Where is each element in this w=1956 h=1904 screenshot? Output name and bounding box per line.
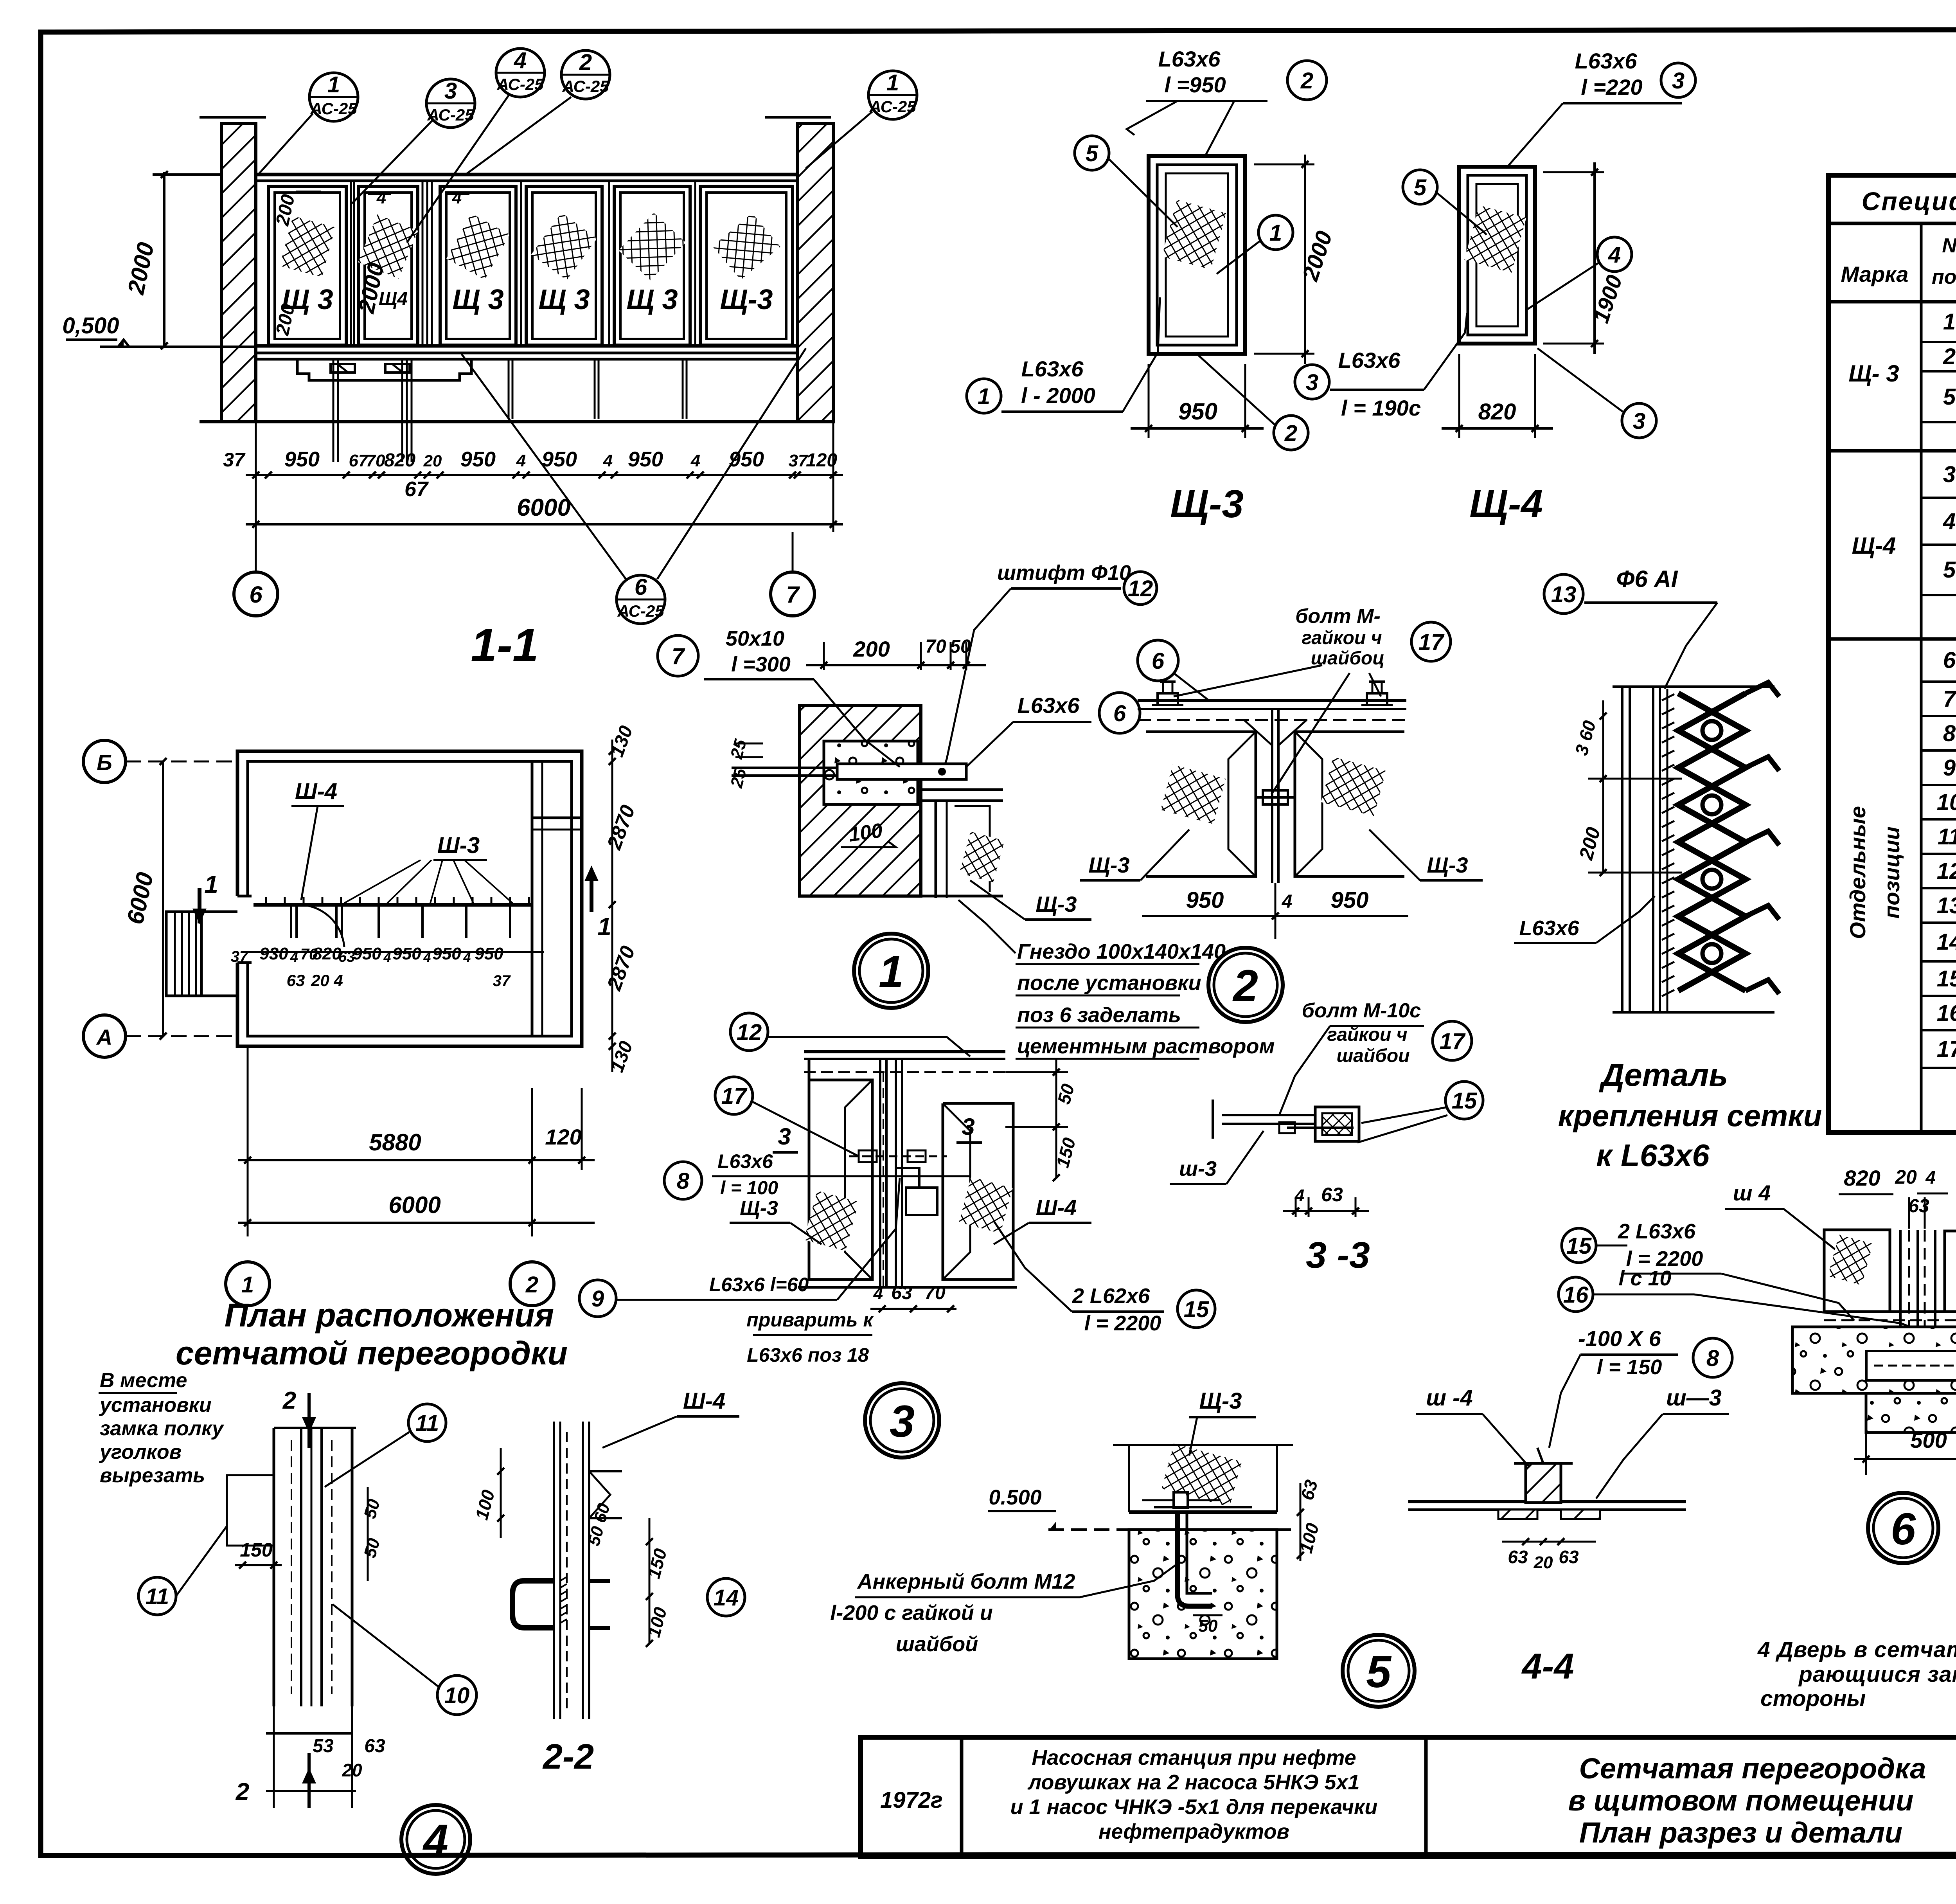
detail 2 : top angle rail double lines <box>1138 699 1406 702</box>
callout 1 bottom-left: L63x6 l-2000 <box>967 379 1001 413</box>
door bottom plate with clamps <box>297 359 471 380</box>
svg-text:50x10: 50x10 <box>726 627 784 650</box>
elevation : right brick wall pier <box>797 124 833 422</box>
plan: section cut marks 1-1 <box>198 888 201 923</box>
svg-text:1: 1 <box>204 870 218 898</box>
svg-text:установки: установки <box>99 1394 212 1416</box>
svg-text:2: 2 <box>1232 961 1258 1011</box>
foundation detail : bottom angles <box>1824 1310 1956 1313</box>
svg-text:950: 950 <box>432 944 461 963</box>
svg-text:АС-25: АС-25 <box>427 106 474 124</box>
svg-text:2: 2 <box>236 1778 249 1805</box>
detail 3 : right door panel <box>943 1103 1013 1280</box>
svg-text:4: 4 <box>463 950 471 965</box>
detail 1 : callout 7 50x10 l=300 <box>658 635 698 676</box>
svg-text:L63x6: L63x6 <box>1158 47 1221 71</box>
suspended vertical rods below chord <box>333 359 334 462</box>
svg-text:5880: 5880 <box>369 1129 421 1155</box>
svg-text:2: 2 <box>282 1387 296 1414</box>
panel Щ-3 #6 <box>700 186 793 345</box>
svg-text:Ш-4: Ш-4 <box>683 1388 725 1414</box>
section 4-4 : hatched post <box>1526 1463 1561 1503</box>
svg-text:Щ-4: Щ-4 <box>1469 482 1543 526</box>
detail 1 : embedded strip 50x10 <box>837 764 966 779</box>
svg-text:820: 820 <box>384 450 415 471</box>
svg-text:Щ4: Щ4 <box>379 289 408 310</box>
foundation detail : ground slab <box>1792 1327 1956 1393</box>
svg-text:цементным раствором: цементным раствором <box>1017 1035 1275 1058</box>
svg-text:9: 9 <box>591 1286 604 1312</box>
svg-text:200: 200 <box>853 637 890 661</box>
panel Щ 3 #5 <box>614 186 690 345</box>
svg-text:500: 500 <box>1910 1428 1947 1452</box>
plan: partition post ticks <box>290 905 292 938</box>
svg-text:7: 7 <box>672 644 685 669</box>
foundation detail : right panel <box>1945 1231 1956 1312</box>
callout 4 right <box>1597 237 1632 272</box>
axis circle 6 (elevation) <box>234 572 278 616</box>
svg-text:2: 2 <box>1284 421 1297 446</box>
svg-text:150: 150 <box>240 1539 273 1561</box>
detail 3 : callout 12 <box>730 1013 768 1051</box>
callout 5 (mesh, Щ-4) <box>1403 170 1437 204</box>
svg-text:Ш-4: Ш-4 <box>295 779 337 804</box>
svg-text:17: 17 <box>1440 1029 1466 1054</box>
svg-text:15: 15 <box>1184 1297 1209 1322</box>
detail 3 : latch hardware <box>906 1188 937 1215</box>
svg-text:Щ-3: Щ-3 <box>720 284 773 315</box>
svg-text:3: 3 <box>962 1114 974 1140</box>
svg-text:17: 17 <box>721 1083 748 1109</box>
svg-text:3: 3 <box>890 1397 915 1447</box>
mesh fixing detail : lacing rod ticks <box>1662 694 1674 700</box>
svg-text:2: 2 <box>579 50 592 75</box>
detail 4 : big circle 4 <box>401 1805 470 1874</box>
svg-text:l - 2000: l - 2000 <box>1021 383 1095 408</box>
svg-text:7: 7 <box>786 581 800 608</box>
svg-text:15: 15 <box>1937 966 1956 992</box>
svg-text:63: 63 <box>1321 1184 1343 1206</box>
detail 3 : callout 17 <box>715 1077 753 1114</box>
callout 1 right <box>1258 215 1293 250</box>
svg-text:63: 63 <box>287 971 305 990</box>
svg-text:2: 2 <box>1943 344 1956 369</box>
detail 1 : big circle 1 <box>854 934 928 1008</box>
svg-text:50: 50 <box>950 636 971 657</box>
elevation : lower stub walls below chord <box>254 359 257 422</box>
detail 5 : dims 63 100 <box>1300 1483 1302 1561</box>
section 4-4 : dims 63 20 63 <box>1502 1541 1596 1543</box>
svg-text:15: 15 <box>1566 1233 1592 1259</box>
svg-text:L63x6: L63x6 <box>1519 916 1579 940</box>
svg-text:37: 37 <box>223 449 246 471</box>
svg-text:Марка: Марка <box>1841 262 1909 286</box>
svg-text:0.500: 0.500 <box>989 1486 1041 1509</box>
svg-text:63: 63 <box>1908 1196 1929 1217</box>
svg-text:2 L63x6: 2 L63x6 <box>1618 1220 1696 1243</box>
detail 4 : section mark 2 (top) <box>307 1393 311 1448</box>
svg-text:Ф6 АI: Ф6 АI <box>1616 566 1678 592</box>
svg-text:4: 4 <box>1294 1186 1304 1205</box>
svg-text:ш-3: ш-3 <box>1179 1157 1217 1181</box>
svg-text:l =300: l =300 <box>731 653 791 676</box>
detail 4 : dims 50 50 <box>367 1487 369 1581</box>
detail 2 : center bolt <box>1263 790 1288 804</box>
svg-text:болт М-: болт М- <box>1295 605 1381 628</box>
plan: bottom dims 5880 120 6000 <box>247 1046 249 1236</box>
elevation : bottom chord double line <box>256 344 797 348</box>
svg-text:6000: 6000 <box>388 1192 440 1218</box>
foundation detail : left panel <box>1824 1230 1890 1312</box>
detail 5 : dim 50 <box>1193 1614 1222 1616</box>
svg-text:820: 820 <box>1844 1166 1880 1190</box>
svg-text:4: 4 <box>376 188 386 207</box>
detail 1 : wall pier with hatch <box>800 705 921 896</box>
svg-text:63: 63 <box>364 1736 385 1756</box>
svg-text:17: 17 <box>1418 630 1445 655</box>
callout 6/AC-25 bottom <box>617 574 665 624</box>
section 2-2 : post elevation <box>553 1422 555 1719</box>
svg-text:3 -3: 3 -3 <box>1306 1235 1370 1276</box>
svg-text:АС-25: АС-25 <box>617 602 664 620</box>
callout 3 left: L63x6 l=190c <box>1295 365 1329 399</box>
panel Щ 3 #3 <box>440 186 516 345</box>
svg-text:50: 50 <box>1199 1616 1218 1636</box>
foundation detail : bottom dims 500 200 <box>1854 1458 1956 1460</box>
detail 5 : base angle with bolt washer <box>1154 1506 1252 1508</box>
svg-text:37: 37 <box>231 948 249 965</box>
svg-text:Насосная станция при нефте: Насосная станция при нефте <box>1032 1746 1356 1769</box>
plan: bottom dim chain (row of sizes) <box>246 951 544 953</box>
mesh detail : callout 13 Ф6АI <box>1544 574 1583 614</box>
svg-text:950: 950 <box>460 448 496 471</box>
detail 3 : callout 9 note <box>579 1280 616 1317</box>
svg-text:4: 4 <box>873 1284 883 1303</box>
detail panel Щ-4 <box>1459 167 1535 344</box>
section 2-2 : dims 100 50 60 150 100 <box>500 1448 502 1538</box>
detail 3 : callout 8 L63x6 l=100 <box>664 1162 702 1199</box>
svg-text:1-1: 1-1 <box>471 619 538 671</box>
detail 1 : dims 200 70 50 <box>823 642 825 670</box>
svg-text:63: 63 <box>891 1283 912 1303</box>
svg-text:950: 950 <box>628 448 663 471</box>
plan: left dim 6000 <box>162 761 164 1036</box>
svg-text:6000: 6000 <box>517 494 571 521</box>
panel Щ 3 #1 <box>268 186 346 345</box>
svg-text:и 1 насос ЧНКЭ -5х1 для пере: и 1 насос ЧНКЭ -5х1 для перекачки <box>1010 1795 1378 1819</box>
svg-text:5: 5 <box>1414 175 1427 200</box>
svg-text:5: 5 <box>1086 141 1098 166</box>
detail 5 : concrete block <box>1129 1530 1277 1659</box>
detail panel Щ-3 <box>1149 156 1245 354</box>
svg-text:3: 3 <box>778 1123 791 1150</box>
svg-text:ш -4: ш -4 <box>1426 1385 1472 1411</box>
detail 2 : big circle 2 <box>1208 948 1283 1022</box>
bottom dimension chain of elevation <box>246 474 843 476</box>
svg-text:План расположения: План расположения <box>225 1297 554 1334</box>
svg-text:Щ- 3: Щ- 3 <box>1848 360 1899 387</box>
axis circle 7 (elevation) <box>771 572 814 616</box>
svg-text:Щ-3: Щ-3 <box>1036 892 1077 916</box>
plan: mesh partition line <box>253 903 532 907</box>
plan: stairs outside left <box>166 912 201 996</box>
svg-text:930: 930 <box>259 944 288 963</box>
svg-text:l = 190с: l = 190с <box>1341 396 1421 420</box>
svg-text:Щ-3: Щ-3 <box>1199 1388 1242 1414</box>
svg-text:l с 10: l с 10 <box>1618 1267 1671 1290</box>
svg-text:приварить к: приварить к <box>746 1309 874 1331</box>
svg-text:950: 950 <box>392 944 421 963</box>
svg-text:шайбои: шайбои <box>1336 1046 1409 1066</box>
svg-text:Щ-3: Щ-3 <box>740 1197 778 1220</box>
detail 3 : top rail <box>804 1050 1005 1053</box>
plan wall break: left entrance opening <box>234 896 252 963</box>
svg-text:N: N <box>1942 234 1956 257</box>
svg-text:1: 1 <box>978 384 990 409</box>
Щ-4 height dim 1900 <box>1543 171 1604 173</box>
svg-text:L63x6: L63x6 <box>717 1150 773 1172</box>
svg-text:12: 12 <box>1937 858 1956 884</box>
svg-text:ш—3: ш—3 <box>1666 1385 1722 1411</box>
svg-text:16: 16 <box>1937 1001 1956 1026</box>
svg-text:4: 4 <box>1282 891 1293 912</box>
svg-text:6: 6 <box>1891 1504 1916 1554</box>
section 2-2 : notch lines <box>589 1470 622 1472</box>
plan: door swing <box>298 905 344 947</box>
svg-text:В месте: В месте <box>100 1369 187 1392</box>
svg-text:6: 6 <box>1943 648 1956 673</box>
plan: axis circles Б А <box>83 740 126 783</box>
mesh fixing detail : chain-link zigzag wires <box>1678 693 1746 991</box>
svg-text:1: 1 <box>1269 220 1282 246</box>
svg-text:7: 7 <box>1943 686 1956 712</box>
svg-text:крепления сетки: крепления сетки <box>1558 1098 1822 1133</box>
svg-text:l = 100: l = 100 <box>720 1178 778 1199</box>
detail 2 : dim 950 4 950 <box>1142 915 1408 917</box>
detail 2 : callout 6 <box>1138 640 1178 681</box>
svg-text:А: А <box>96 1025 112 1049</box>
svg-text:после установки: после установки <box>1017 971 1201 995</box>
svg-text:L63x6: L63x6 <box>1338 348 1401 373</box>
svg-text:Ш-3: Ш-3 <box>437 833 480 858</box>
svg-text:10: 10 <box>444 1683 470 1708</box>
svg-text:950: 950 <box>284 448 320 471</box>
svg-text:70: 70 <box>924 1283 946 1303</box>
detail 5 : big circle 5 <box>1343 1635 1415 1707</box>
dim 2000 left of elevation <box>163 172 165 346</box>
svg-text:Б: Б <box>97 750 112 775</box>
detail 5 : floor line <box>1129 1510 1277 1514</box>
svg-text:2-2: 2-2 <box>542 1737 594 1776</box>
detail 3 : center door post <box>879 1059 881 1287</box>
detail 2 : right panel <box>1295 732 1404 876</box>
section 2-2 : U-bolt stirrup <box>512 1581 554 1628</box>
svg-text:вырезать: вырезать <box>100 1464 205 1487</box>
svg-text:стороны: стороны <box>1760 1686 1866 1711</box>
svg-text:уголков: уголков <box>99 1441 182 1463</box>
svg-text:16: 16 <box>1563 1282 1589 1308</box>
svg-text:Щ-3: Щ-3 <box>1427 853 1468 877</box>
callout 2 bottom: leader to bottom frame <box>1274 416 1308 450</box>
3-3 callout 15 <box>1445 1082 1483 1119</box>
Щ-3 height dim 2000 <box>1254 164 1314 166</box>
svg-text:4: 4 <box>516 451 526 470</box>
svg-text:Щ 3: Щ 3 <box>452 284 503 315</box>
svg-text:гайкои ч: гайкои ч <box>1327 1024 1407 1045</box>
Щ-4 width dim 820 <box>1458 354 1460 438</box>
svg-text:70: 70 <box>366 451 385 470</box>
svg-text:950: 950 <box>1178 398 1217 425</box>
svg-text:Отдельные: Отдельные <box>1845 806 1870 939</box>
callout 5 (mesh) <box>1075 136 1109 170</box>
svg-text:L63x6: L63x6 <box>1575 49 1638 73</box>
callout 3/AC-25 <box>426 78 475 128</box>
mesh detail : wire knuckle loops <box>1703 721 1721 740</box>
svg-text:5: 5 <box>1943 557 1956 583</box>
svg-text:ловушках на 2 насоса 5НКЭ 5х: ловушках на 2 насоса 5НКЭ 5х1 <box>1027 1771 1359 1794</box>
svg-text:4: 4 <box>603 451 613 470</box>
svg-text:Деталь: Деталь <box>1599 1057 1728 1093</box>
svg-text:в щитовом помещении: в щитовом помещении <box>1568 1784 1914 1817</box>
detail 1 : cement socket (speckled) <box>824 741 918 804</box>
svg-text:20 4: 20 4 <box>311 971 343 990</box>
svg-text:-100 X 6: -100 X 6 <box>1578 1326 1661 1351</box>
svg-text:11: 11 <box>1938 824 1956 849</box>
elevation : bottom ground line <box>200 420 833 423</box>
svg-text:L63x6: L63x6 <box>1018 693 1080 718</box>
detail 2 : left panel <box>1146 732 1256 876</box>
svg-text:13: 13 <box>1937 893 1956 918</box>
detail 5 : callout 14 <box>707 1578 745 1616</box>
svg-text:12: 12 <box>737 1020 762 1045</box>
svg-text:67: 67 <box>405 477 429 501</box>
detail 3 : bolts <box>859 1150 877 1162</box>
svg-text:6: 6 <box>635 574 647 600</box>
svg-text:8: 8 <box>1706 1346 1719 1371</box>
detail 4 : dim 150 <box>235 1564 282 1566</box>
svg-text:63: 63 <box>1508 1547 1528 1567</box>
section 3-3 small assembly <box>1222 1114 1314 1116</box>
mesh fixing detail : frame post <box>1613 686 1774 688</box>
svg-text:6: 6 <box>1152 648 1165 674</box>
svg-text:1: 1 <box>597 912 611 941</box>
svg-text:120: 120 <box>545 1125 581 1149</box>
svg-text:План разрез и детали: План разрез и детали <box>1579 1816 1902 1849</box>
svg-text:14: 14 <box>714 1585 739 1611</box>
foundation callout 16 : l c10 <box>1559 1277 1593 1312</box>
svg-text:950: 950 <box>542 448 577 471</box>
svg-text:63: 63 <box>1559 1547 1579 1567</box>
svg-text:950: 950 <box>1331 887 1369 913</box>
svg-text:l = 2200: l = 2200 <box>1084 1312 1161 1335</box>
panel Щ4 #2 <box>358 186 418 345</box>
svg-text:950: 950 <box>352 944 381 963</box>
svg-text:11: 11 <box>415 1411 439 1436</box>
svg-text:гайкои ч: гайкои ч <box>1302 628 1382 648</box>
svg-text:15: 15 <box>1452 1088 1477 1114</box>
svg-text:1: 1 <box>1943 309 1956 335</box>
svg-text:рающиися замок открываемыи: рающиися замок открываемыи без ключа с в… <box>1798 1662 1956 1687</box>
svg-text:17: 17 <box>1937 1037 1956 1062</box>
svg-text:Гнездо 100х140х140: Гнездо 100х140х140 <box>1017 940 1226 963</box>
detail 4 : post plan lines <box>273 1428 275 1706</box>
svg-text:10: 10 <box>1937 790 1956 815</box>
detail 3 : left panel <box>809 1059 872 1280</box>
detail 4 : callout 11 <box>408 1404 446 1441</box>
svg-text:4-4: 4-4 <box>1521 1647 1574 1686</box>
svg-text:сетчатой перегородки: сетчатой перегородки <box>176 1335 568 1371</box>
svg-text:l =950: l =950 <box>1164 72 1226 97</box>
mesh detail : dims 3 60 200 200 <box>1602 700 1604 873</box>
detail 2 : center tee post <box>1271 709 1273 883</box>
3-3 dims 4 63 <box>1295 1197 1297 1217</box>
svg-text:3: 3 <box>1633 409 1645 434</box>
callout 3 bottom right <box>1622 403 1656 438</box>
svg-text:Щ 3: Щ 3 <box>538 284 590 315</box>
section 4-4 : hatch under plate <box>1498 1510 1537 1519</box>
svg-text:5: 5 <box>1943 384 1956 410</box>
svg-text:нефтепрадуктов: нефтепрадуктов <box>1098 1820 1289 1843</box>
plan view outer walls <box>237 751 582 1046</box>
svg-text:L63x6 поз 18: L63x6 поз 18 <box>747 1344 869 1366</box>
svg-text:2: 2 <box>525 1272 538 1298</box>
detail 4 : section mark 2 (bottom) <box>307 1753 311 1808</box>
svg-text:l-200 с гайкой и: l-200 с гайкой и <box>830 1601 993 1625</box>
detail 4 : callout 11 (left) <box>138 1577 176 1615</box>
svg-text:Сетчатая перегородка: Сетчатая перегородка <box>1579 1752 1926 1785</box>
svg-text:1: 1 <box>241 1272 254 1298</box>
svg-text:9: 9 <box>1943 755 1956 781</box>
svg-text:поз: поз <box>1932 266 1956 288</box>
svg-text:Спецификация стали на одну: Спецификация стали на одну штуку каждои … <box>1862 187 1956 216</box>
svg-text:4: 4 <box>452 188 462 207</box>
svg-text:70: 70 <box>925 636 946 657</box>
plan: axis circles 1 2 <box>226 1262 270 1306</box>
svg-text:Ш-4: Ш-4 <box>1036 1195 1077 1220</box>
section 4-4 : base plate <box>1408 1500 1686 1503</box>
detail 3 : bottom ground line <box>798 1286 1017 1289</box>
detail 1 : dim 25 25 <box>735 743 763 745</box>
svg-text:ш 4: ш 4 <box>1733 1181 1771 1205</box>
svg-text:АС-25: АС-25 <box>562 77 609 95</box>
plan inner partition right vertical <box>531 761 534 1036</box>
svg-text:1: 1 <box>327 72 340 97</box>
big circle 6 (notes) <box>1868 1493 1938 1563</box>
callout 4/AC-25 <box>496 48 545 97</box>
svg-text:100: 100 <box>847 819 884 846</box>
detail 4 : bottom dims 53 63 20 <box>266 1732 352 1735</box>
svg-text:АС-25: АС-25 <box>310 99 357 118</box>
svg-text:820: 820 <box>313 944 342 963</box>
Щ-3 width dim 950 <box>1148 364 1150 438</box>
callout 2/AC-25 <box>561 50 610 99</box>
svg-text:20: 20 <box>423 452 442 470</box>
svg-text:4: 4 <box>1608 242 1621 268</box>
detail 3 : big circle 3 <box>865 1383 939 1458</box>
svg-text:штифт Ф10: штифт Ф10 <box>997 561 1131 585</box>
foundation callout 15 : 2L63x6 l=2200 <box>1562 1228 1596 1263</box>
detail 4 : lock cutout dashed box <box>227 1475 274 1546</box>
svg-text:АС-25: АС-25 <box>869 97 916 116</box>
callout 1/AC-25 right <box>868 70 917 119</box>
svg-text:3: 3 <box>1943 462 1956 487</box>
mullions between panels <box>350 181 352 346</box>
svg-text:820: 820 <box>1478 399 1516 425</box>
svg-text:Анкерный болт М12: Анкерный болт М12 <box>857 1570 1075 1593</box>
mesh detail : wire hooks right <box>1746 682 1779 696</box>
svg-text:Щ-3: Щ-3 <box>1088 853 1129 877</box>
detail 1 : angle L63x6 horizontal <box>921 788 1003 791</box>
